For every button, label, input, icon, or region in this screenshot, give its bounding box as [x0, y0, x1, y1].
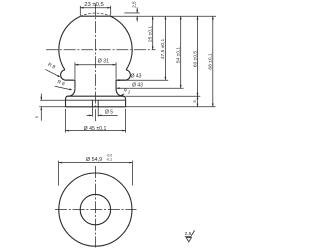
- left dim 5 lower segment: [40, 107, 42, 121]
- ball left arc: [59, 16, 80, 69]
- flange rim tangent line: [66, 99, 126, 101]
- arrowhead 2,5 upper: [136, 10, 138, 13]
- svg-text:47,5 ±0,1: 47,5 ±0,1: [160, 39, 166, 60]
- flange top face: [67, 95, 124, 97]
- Ø43 lower shelf / ext line for 54: [116, 87, 183, 89]
- arrowhead 2,5 lower: [136, 16, 138, 19]
- svg-text:25 ±0,1: 25 ±0,1: [148, 26, 154, 43]
- arrowhead Ø31 left: [75, 64, 78, 66]
- svg-text:Ø 5: Ø 5: [105, 110, 113, 116]
- R8 groove ear left: [61, 70, 75, 80]
- surface finish value underline: [185, 235, 192, 237]
- svg-text:Ø 43: Ø 43: [131, 74, 142, 80]
- dim Ø54,9 line: [59, 162, 133, 164]
- arrowhead 23 right: [107, 7, 110, 9]
- dim 2,5 lower segment: [136, 16, 138, 21]
- flange rim corner left: [66, 96, 68, 100]
- ball right arc: [111, 16, 132, 69]
- dim line 8 connector: [197, 96, 199, 107]
- dim Ø31 line: [75, 64, 116, 66]
- hole Ø5 left edge: [91, 100, 93, 107]
- dim 2,5 upper segment: [136, 7, 138, 13]
- arrowheads dim 25: [152, 16, 154, 19]
- arrowhead R8 leader: [57, 75, 60, 77]
- arrowheads left dim 5: [40, 97, 42, 100]
- vertical centerline of side view: [95, 4, 97, 123]
- R1 leader: [121, 94, 125, 96]
- flange right side: [125, 100, 127, 107]
- arrowhead Ø43 upper: [116, 79, 119, 81]
- flange rim corner right: [124, 96, 126, 100]
- arrowhead Ø43 lower: [116, 87, 119, 89]
- Ø5 left arrow tail: [87, 114, 93, 116]
- svg-text:23 ±0,5: 23 ±0,5: [84, 2, 104, 8]
- dim line 68: [212, 16, 214, 107]
- dim line 47,5: [164, 16, 166, 80]
- arrowheads dim 68: [212, 16, 214, 19]
- dim Ø45 ext right: [125, 109, 127, 133]
- bottom view horizontal centerline: [55, 209, 137, 211]
- dim 23 line: [80, 7, 110, 9]
- arrowheads Ø45: [66, 130, 69, 132]
- ball flat top line: [80, 15, 110, 17]
- flange left side: [65, 100, 67, 107]
- bottom view vertical centerline: [94, 166, 96, 248]
- flat plane reference ext line: [111, 15, 216, 17]
- bottom view outer circle: [59, 173, 132, 246]
- hole Ø5 right edge: [97, 100, 99, 107]
- arrowheads Ø5: [89, 115, 92, 117]
- svg-text:-0,1: -0,1: [106, 157, 112, 161]
- arrowheads dim 47,5: [165, 16, 167, 19]
- dim line 54: [180, 16, 182, 88]
- dim Ø54,9 ext stub right: [131, 161, 133, 186]
- dim 23 ext line right: [110, 6, 112, 16]
- svg-text:R 8: R 8: [47, 62, 57, 71]
- bottom view inner circle: [80, 194, 110, 224]
- dim Ø31 ext right: [115, 62, 117, 79]
- arrowheads dim 60: [197, 16, 199, 19]
- Ø43 upper shelf / ext line for 47,5: [116, 79, 168, 81]
- neck waist right edge: [115, 80, 117, 88]
- dim Ø45 ext left: [65, 109, 67, 133]
- dim Ø54,9 ext stub left: [58, 161, 60, 186]
- arrowhead R6 leader: [69, 88, 72, 90]
- arrowheads small dim 8: [197, 96, 199, 99]
- arrowhead 23 left: [80, 7, 83, 9]
- arrowheads dim 54: [180, 16, 182, 19]
- R8 groove ear right: [116, 70, 130, 80]
- svg-text:Ø 43: Ø 43: [132, 83, 143, 89]
- svg-text:2,5: 2,5: [132, 1, 137, 8]
- R6 leader: [55, 86, 71, 90]
- surface finish slash: [191, 230, 194, 235]
- dim line 25: [152, 16, 154, 50]
- svg-text:54 ±0,1: 54 ±0,1: [176, 47, 182, 64]
- svg-text:Ø 31: Ø 31: [98, 59, 109, 65]
- svg-text:2,5: 2,5: [185, 231, 192, 237]
- Ø5 ext left below flange: [91, 107, 93, 116]
- left dim 5 ext lower: [39, 106, 65, 108]
- svg-text:Ø 54,9: Ø 54,9: [86, 157, 102, 163]
- svg-text:Ø 45 ±0,1: Ø 45 ±0,1: [84, 126, 107, 132]
- flange bottom face: [66, 106, 126, 108]
- fillet R6 left: [67, 88, 75, 96]
- arrowhead R1 leader: [120, 94, 123, 96]
- svg-text:68 ±0,1: 68 ±0,1: [208, 53, 214, 70]
- svg-text:5: 5: [34, 115, 39, 118]
- neck waist left edge: [74, 80, 76, 88]
- horizontal centerline of ball (doubles as ext line for 25 dim): [46, 49, 156, 51]
- ext line flange top for 60: [126, 95, 201, 97]
- dim Ø45 line: [66, 130, 126, 132]
- ball dashed apex arc: [80, 13, 110, 16]
- left dim 5 ext upper: [40, 99, 65, 101]
- arrowheads Ø54,9: [59, 162, 62, 164]
- Ø5 shelf line: [98, 114, 117, 116]
- ext line bottom for 68: [126, 106, 216, 108]
- surface finish triangle: [186, 238, 191, 242]
- fillet R6 right: [116, 88, 124, 96]
- R8 leader: [45, 69, 59, 76]
- dim line 60: [197, 16, 199, 96]
- dim 23 ext line left: [79, 6, 81, 16]
- Ø5 ext right below flange: [97, 107, 99, 116]
- arrowhead Ø31 right: [113, 64, 116, 66]
- dim 2,5 apex stub line: [124, 12, 139, 14]
- svg-text:8: 8: [192, 100, 197, 103]
- left dim 5 upper segment: [40, 94, 42, 101]
- svg-text:60 ±0,5: 60 ±0,5: [192, 51, 198, 68]
- dim Ø31 ext left: [74, 62, 76, 79]
